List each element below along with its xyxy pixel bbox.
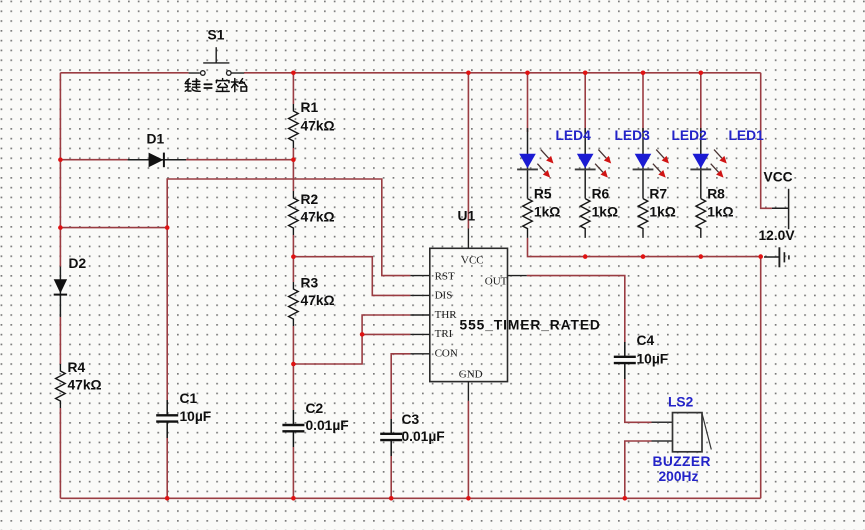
node top rail / LED2 (641, 71, 646, 76)
svg-text:555_TIMER_RATED: 555_TIMER_RATED (460, 318, 601, 333)
svg-text:TRI: TRI (435, 328, 453, 340)
svg-text:U1: U1 (458, 209, 476, 224)
wire U1 VCC column (467, 73, 469, 229)
svg-text:R1: R1 (301, 100, 319, 115)
resistor R2 (289, 191, 299, 235)
IC U1 555_TIMER_RATED body (430, 248, 508, 381)
wire THR net (293, 315, 410, 364)
svg-text:1kΩ: 1kΩ (592, 205, 618, 220)
svg-text:R2: R2 (301, 192, 319, 207)
svg-text:47kΩ: 47kΩ (301, 119, 335, 134)
node top rail / U1 VCC (466, 71, 471, 76)
svg-text:BUZZER: BUZZER (653, 454, 711, 469)
LED LED3 (575, 128, 611, 199)
pin stubs U1 (410, 229, 526, 401)
node bottom rail / U1 GND (466, 496, 471, 501)
svg-text:VCC: VCC (461, 255, 484, 267)
wire LED3 column top (584, 73, 586, 132)
wire C4 to buzzer top (625, 379, 652, 423)
svg-text:R7: R7 (649, 186, 667, 201)
diode D1 (128, 153, 186, 168)
svg-text:0.01µF: 0.01µF (306, 418, 349, 433)
wire R1 column (292, 73, 294, 104)
wire LED resistor ground rail (528, 238, 761, 257)
svg-text:C2: C2 (306, 401, 324, 416)
svg-text:10µF: 10µF (180, 409, 212, 424)
wire RST net (167, 179, 410, 276)
wire right rail ground segment (760, 257, 762, 499)
node top rail / LED1 (699, 71, 704, 76)
wire DIS net (293, 257, 410, 296)
wire C1 column (166, 228, 168, 400)
pin VCC stub (467, 229, 469, 249)
node top rail / R1 (291, 71, 296, 76)
resistor R3 (289, 282, 299, 326)
buzzer LS2 (652, 413, 712, 452)
pin TRI stub (410, 333, 429, 335)
svg-text:OUT: OUT (485, 275, 508, 287)
svg-text:CON: CON (435, 348, 458, 360)
pin RST stub (410, 275, 429, 277)
pin CON stub (410, 353, 429, 355)
wire top rail right of S1 to VCC drop (244, 72, 761, 74)
svg-text:LED3: LED3 (615, 128, 651, 143)
node LED rail / R8 (699, 254, 704, 259)
node LED rail / R6 (583, 254, 588, 259)
node R3 bottom (291, 362, 296, 367)
resistor R1 (289, 104, 299, 148)
svg-text:D1: D1 (147, 132, 165, 147)
node D1 / R1 bottom (291, 157, 296, 162)
wire right rail to VCC symbol (761, 73, 772, 209)
node THR TRI tie (360, 332, 365, 337)
svg-text:D2: D2 (69, 256, 87, 271)
svg-text:C4: C4 (637, 333, 655, 348)
svg-text:LED2: LED2 (672, 128, 708, 143)
wire CON net to C3 (391, 354, 410, 419)
svg-text:LED1: LED1 (729, 128, 765, 143)
resistor R8 (696, 199, 706, 238)
capacitor C1 (156, 400, 178, 438)
svg-text:0.01µF: 0.01µF (402, 429, 445, 444)
svg-text:47kΩ: 47kΩ (68, 378, 102, 393)
svg-text:RST: RST (435, 270, 455, 282)
LED LED1 (690, 128, 726, 199)
wire LED4 column top (527, 73, 529, 132)
capacitor C2 (282, 410, 304, 447)
svg-text:R3: R3 (301, 276, 319, 291)
wire R3 column (292, 257, 294, 282)
wire C2 column (292, 364, 294, 410)
svg-text:1kΩ: 1kΩ (534, 205, 560, 220)
svg-text:200Hz: 200Hz (659, 469, 699, 484)
svg-text:1kΩ: 1kΩ (707, 205, 733, 220)
wire D1 row (60, 159, 127, 161)
node bottom rail / C3 (389, 496, 394, 501)
wire OUT net (527, 276, 625, 343)
svg-text:LED4: LED4 (556, 128, 592, 143)
pin THR stub (410, 314, 429, 316)
svg-text:C3: C3 (402, 412, 420, 427)
node left rail / D1 (58, 157, 63, 162)
node R2 bottom (291, 254, 296, 259)
label key = space (Chinese) (185, 79, 247, 92)
wire TRI net (362, 333, 410, 335)
svg-text:R6: R6 (592, 186, 610, 201)
pin DIS stub (410, 294, 429, 296)
svg-text:GND: GND (459, 369, 483, 381)
svg-text:S1: S1 (208, 28, 225, 43)
wire top rail left of S1 (60, 72, 188, 74)
capacitor C3 (380, 419, 402, 456)
wire R2 column (292, 160, 294, 191)
svg-text:47kΩ: 47kΩ (301, 210, 335, 225)
node LED rail / ground tap (758, 254, 763, 259)
svg-text:12.0V: 12.0V (759, 228, 796, 243)
svg-text:1kΩ: 1kΩ (649, 205, 675, 220)
wire LED1 column top (700, 73, 702, 132)
wire buzzer bottom to ground rail (625, 441, 652, 498)
wire left rail (59, 73, 61, 267)
switch S1 (189, 47, 245, 75)
node bottom rail / C1 (165, 496, 170, 501)
node top rail / LED4 (525, 71, 530, 76)
node bottom rail / C2 (291, 496, 296, 501)
pin OUT stub (508, 275, 527, 277)
LED LED4 (517, 128, 553, 199)
svg-text:R8: R8 (707, 186, 725, 201)
node left rail / C1 branch (58, 225, 63, 230)
svg-text:R5: R5 (534, 186, 552, 201)
pin GND stub (467, 382, 469, 401)
diode D2 (54, 267, 67, 318)
VCC power symbol (772, 189, 789, 229)
resistor R4 (56, 364, 66, 408)
wire U1 GND column (467, 401, 469, 498)
node top rail / LED3 (583, 71, 588, 76)
svg-text:47kΩ: 47kΩ (301, 293, 335, 308)
node bottom rail / buzzer (623, 496, 628, 501)
wire LED2 column top (642, 73, 644, 132)
resistor R7 (638, 199, 648, 238)
capacitor C4 (614, 342, 636, 379)
ground (764, 247, 789, 267)
svg-text:THR: THR (435, 309, 458, 321)
svg-text:R4: R4 (68, 360, 86, 375)
wire node A to C1 column (60, 227, 167, 229)
svg-text:C1: C1 (180, 391, 198, 406)
node LED rail / R7 (641, 254, 646, 259)
svg-text:DIS: DIS (435, 290, 453, 302)
wire bottom ground rail (60, 497, 760, 499)
resistor R5 (523, 199, 533, 238)
LED LED2 (633, 128, 669, 199)
svg-text:10µF: 10µF (637, 352, 669, 367)
resistor R6 (580, 199, 590, 238)
node C1 top (165, 225, 170, 230)
svg-text:LS2: LS2 (668, 395, 694, 410)
svg-text:VCC: VCC (764, 170, 793, 185)
